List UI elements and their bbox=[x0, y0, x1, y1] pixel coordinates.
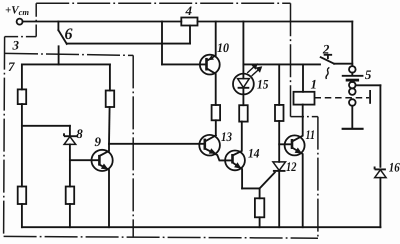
svg-text:13: 13 bbox=[221, 129, 232, 144]
svg-text:6: 6 bbox=[65, 26, 73, 43]
svg-text:8: 8 bbox=[76, 126, 83, 141]
svg-text:9: 9 bbox=[95, 134, 102, 149]
svg-text:7: 7 bbox=[8, 59, 15, 74]
svg-text:5: 5 bbox=[365, 67, 372, 82]
svg-text:11: 11 bbox=[306, 127, 316, 142]
svg-text:16: 16 bbox=[389, 160, 400, 175]
svg-text:2: 2 bbox=[322, 42, 330, 57]
svg-text:14: 14 bbox=[248, 146, 260, 161]
svg-text:12: 12 bbox=[286, 159, 297, 174]
svg-text:+Vст: +Vст bbox=[5, 5, 29, 18]
svg-text:1: 1 bbox=[311, 77, 318, 92]
svg-text:15: 15 bbox=[257, 77, 269, 92]
svg-text:3: 3 bbox=[12, 38, 20, 53]
svg-text:10: 10 bbox=[217, 40, 229, 55]
svg-text:4: 4 bbox=[185, 3, 193, 18]
